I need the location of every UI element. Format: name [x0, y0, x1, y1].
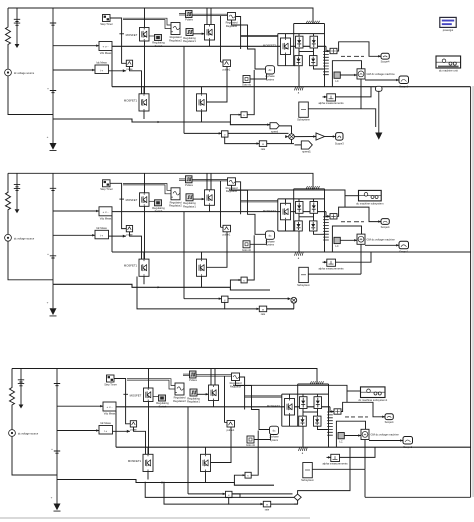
wire D21 mid [298, 213, 300, 221]
svg-text:system: system [266, 243, 274, 247]
svg-text:Step Timer: Step Timer [104, 382, 117, 386]
wire SQ3 out [254, 435, 271, 440]
wire right leg unit2 [324, 189, 326, 252]
wire ctrl b unit2 [123, 185, 171, 194]
svg-text:LC: LC [335, 79, 338, 83]
wire Q24 bottom [143, 276, 145, 284]
svg-text:Scope4: Scope4 [385, 420, 394, 424]
wire top bus unit2 [8, 173, 313, 189]
svg-text:GM dc voltage machine: GM dc voltage machine [367, 72, 396, 76]
wire bridge gate a unit1 [241, 34, 278, 36]
svg-text:Goto dc: Goto dc [242, 248, 252, 252]
voltage measurement block unit3 [103, 402, 116, 411]
ground hatch unit3 [299, 448, 308, 451]
svg-text:Pulses: Pulses [185, 183, 193, 187]
wire bridge gate b unit3 [245, 396, 282, 398]
wire BX1 out [267, 143, 294, 145]
wire bridge gate a unit2 [241, 200, 278, 202]
regulator block W12 [228, 13, 236, 21]
wire Q31 top [148, 369, 150, 389]
wire W22 gate down [220, 181, 222, 227]
wire left rail lower unit2 [8, 241, 53, 279]
wire J1 out unit3 [232, 494, 294, 498]
wire bridge left edge unit3 [281, 394, 283, 426]
wire G21 down [130, 232, 142, 259]
sum block SM1 [330, 48, 337, 53]
wire SS2 out [308, 273, 361, 275]
arrowhead into sum unit1 [285, 135, 288, 138]
converter block RB3 [270, 426, 279, 434]
wire G31 down [134, 427, 146, 454]
svg-text:Subsystem: Subsystem [297, 283, 310, 287]
svg-text:i +: i + [104, 429, 108, 433]
wire into discrete unit2 [229, 190, 345, 207]
svg-text:Regulator2: Regulator2 [169, 204, 182, 208]
wire Q13 top [285, 34, 287, 38]
svg-text:+: + [47, 87, 49, 91]
wire D32 mid [317, 409, 319, 417]
port oval on bus unit1 [376, 86, 383, 91]
wire main bus unit1 [112, 86, 471, 88]
wire into discrete unit3 [233, 385, 347, 402]
junction block J31 [226, 491, 233, 497]
wire Q33 top [289, 394, 291, 398]
diode D21 [296, 202, 304, 214]
wire machine top feed unit2 [332, 226, 361, 252]
wire Q32 top [210, 369, 212, 386]
transfer block BX2 [259, 306, 266, 312]
svg-text:Regulator2: Regulator2 [169, 38, 182, 42]
page edge right [472, 86, 473, 497]
svg-text:Goto dc: Goto dc [246, 443, 256, 447]
diode D1s [50, 119, 57, 151]
wire Q35 top [205, 447, 207, 454]
svg-text:Step Timer: Step Timer [100, 187, 113, 191]
filter element F3 [327, 412, 333, 435]
wire Q15 top [201, 87, 203, 94]
battery E1b [50, 8, 56, 119]
battery E3a [18, 369, 24, 405]
wire 3phase bus unit2 [294, 188, 325, 190]
terminator tick unit1 [119, 33, 124, 35]
svg-text:Step Timer: Step Timer [100, 22, 113, 26]
wire left rail lower unit3 [12, 437, 57, 476]
svg-text:MOSFET: MOSFET [126, 33, 138, 37]
svg-text:Scope3: Scope3 [335, 141, 344, 145]
svg-text:alpha measurements: alpha measurements [318, 267, 344, 271]
wire left rail unit1 [7, 8, 9, 25]
wire bottom return unit1 [53, 119, 270, 125]
wire W32 out b [236, 381, 270, 430]
wire G32 down [211, 427, 232, 463]
resistor R2 [6, 190, 11, 234]
wire W12 in a [192, 13, 228, 15]
wire W32 out [240, 377, 245, 410]
wire B2C out unit3 [294, 503, 298, 505]
wire bridge bottom unit3 [282, 425, 299, 427]
svg-text:Regulator1: Regulator1 [183, 204, 196, 208]
voltage measurement block unit1 [99, 42, 112, 51]
wire source to vmeas unit1 [53, 45, 99, 47]
wire vmeas to sum unit3 [330, 407, 334, 412]
svg-text:dc voltage source: dc voltage source [14, 236, 35, 240]
wire SQ2 out [250, 239, 267, 244]
svg-text:+ v -: + v - [103, 45, 109, 49]
MOSFET Q21 [140, 193, 150, 207]
wire D31 top [302, 394, 304, 397]
wire right rail [470, 87, 472, 498]
svg-text:alpha measurements: alpha measurements [318, 101, 344, 105]
wire sum out unit1 [294, 136, 316, 138]
wire left rail unit2 [7, 173, 9, 190]
wire J12 left [230, 115, 241, 122]
wire 3phase left leg unit2 [293, 189, 295, 231]
wire bridge top rail unit2 [278, 198, 325, 200]
wire D11 mid [298, 48, 300, 56]
wire W12 out [236, 17, 241, 50]
wire bridge midlink unit1 [299, 51, 314, 53]
wire Q15 bottom [201, 111, 203, 122]
MOSFET Q32 [209, 385, 219, 401]
wire Q23 bottom [285, 220, 287, 231]
constant block SQ2 [243, 241, 250, 248]
wire vmeas to sum unit2 [326, 212, 330, 217]
wire pentagon tag to sum unit1 [279, 126, 291, 134]
wire D23 bottom [298, 231, 300, 252]
wire Q24 top [143, 252, 145, 259]
wire main bus unit2 [112, 251, 471, 253]
discrete system block unit3 [361, 387, 386, 398]
wire J11 out [228, 132, 289, 134]
machine block MC3 [361, 429, 369, 439]
wire Q31 to GD3 [153, 396, 159, 398]
svg-text:MOSFET2: MOSFET2 [263, 44, 277, 48]
wire machine right unit2 [365, 244, 399, 246]
wire Q31 bottom [148, 402, 150, 455]
filter element F1 [323, 52, 329, 75]
current measurement block unit2 [95, 230, 109, 239]
wire G12 down [207, 67, 228, 103]
wire W12 gate stub [221, 61, 224, 63]
svg-text:Subsystem: Subsystem [301, 478, 314, 482]
ground hatch unit2 [295, 252, 304, 255]
wire bridge gate b unit1 [241, 36, 278, 38]
battery E2b [50, 173, 56, 284]
wire imeas out unit2 [109, 235, 127, 237]
winding hatch marks unit3 [310, 381, 323, 384]
wire D24 bottom [314, 231, 326, 234]
gate driver block GD3 [159, 395, 166, 401]
powergui block [440, 17, 456, 27]
wire bottom return unit3 [57, 480, 274, 486]
scope SC13 [336, 133, 343, 141]
svg-text:Idc Meas: Idc Meas [96, 61, 107, 65]
transfer block BX1 [259, 141, 266, 147]
wire vmeas long out unit2 [112, 211, 326, 213]
scope SC11 [381, 53, 389, 59]
svg-text:Vdc Meas: Vdc Meas [104, 412, 116, 416]
svg-text:GM dc voltage machine: GM dc voltage machine [371, 433, 400, 437]
wire chain upper unit3 [188, 493, 226, 495]
pulse block K32 [190, 389, 197, 396]
wire bridge bottom unit1 [278, 65, 295, 67]
gate pulse block G31 [130, 421, 136, 427]
svg-text:speed1: speed1 [302, 150, 311, 154]
svg-text:Vdc Meas: Vdc Meas [100, 216, 112, 220]
wire gain out unit1 [325, 136, 336, 138]
wire Q11 bottom [144, 41, 146, 94]
wire Q22 top [206, 173, 208, 190]
MOSFET Q22 [205, 190, 215, 206]
wire DK3 to machine [344, 435, 361, 437]
arrowhead imeas unit1 [123, 69, 126, 72]
wire D32 top [317, 394, 319, 397]
wire diamond up unit3 [298, 447, 350, 494]
diode D33 [299, 416, 307, 426]
wire chain upper unit2 [184, 298, 222, 300]
diode D12 [310, 36, 318, 48]
wire source to vmeas unit2 [53, 210, 99, 212]
battery E1a [14, 8, 20, 44]
subsystem block SS2 [299, 267, 309, 282]
wire J32 right [251, 431, 258, 476]
wire SS3 out [312, 468, 365, 470]
gate pulse block G32 [227, 421, 235, 428]
wire W32 gate down [224, 376, 226, 422]
wire ctrl b unit3 [127, 380, 175, 389]
subsystem block SS3 [303, 463, 313, 478]
converter block RB2 [266, 231, 275, 239]
wire 3phase bus unit1 [294, 23, 325, 25]
wire J11 down [225, 137, 260, 144]
voltage measurement block unit2 [99, 207, 112, 216]
wire K21 b [179, 179, 186, 181]
wire machine right unit3 [369, 440, 403, 442]
wire Q32 top b [214, 369, 216, 386]
wire vmeas down unit1 [111, 51, 113, 87]
wire source to imeas unit3 [57, 430, 99, 432]
current measurement block unit3 [99, 426, 113, 435]
wire D22 mid [313, 213, 315, 221]
wire diamond bottom feed unit3 [297, 501, 299, 505]
svg-text:+: + [47, 252, 49, 256]
svg-text:+ v -: + v - [103, 210, 109, 214]
wire machine down unit3 [364, 440, 366, 470]
svg-text:dc machine subsystem1: dc machine subsystem1 [358, 398, 387, 402]
wire W22 in a [192, 179, 228, 181]
regulator block W11 [171, 23, 180, 35]
ground hatch unit1 [295, 87, 304, 90]
gate pulse block G22 [223, 225, 231, 232]
svg-text:system: system [266, 77, 274, 81]
wire D34 bottom [318, 426, 330, 429]
filter element F2 [323, 217, 329, 240]
svg-text:MOSFET1: MOSFET1 [124, 98, 138, 102]
wire top bus unit1 [8, 8, 313, 24]
wire D13 bottom [298, 66, 300, 87]
svg-text:dc voltage source: dc voltage source [18, 432, 39, 436]
winding hatch marks unit2 [306, 186, 319, 189]
wire W22 out [236, 182, 241, 215]
junction block J12 [241, 112, 247, 118]
subsystem block SS1 [299, 102, 309, 117]
svg-text:Pulses: Pulses [185, 18, 193, 22]
svg-text:+: + [51, 496, 53, 500]
wire chain left ext unit2 [137, 277, 225, 309]
wire K12 out [193, 33, 205, 35]
wire K22 out [193, 198, 205, 200]
wire J21 down [225, 302, 260, 309]
svg-text:Switch: Switch [155, 209, 163, 213]
junction block J32 [245, 472, 251, 478]
constant block SQ3 [247, 436, 254, 443]
scope SC12 [399, 76, 409, 84]
svg-text:rate: rate [261, 147, 266, 151]
wire bridge left edge unit2 [277, 199, 279, 231]
wire D11 top [298, 34, 300, 37]
wire K31 a [183, 373, 190, 375]
wire Q25 top [201, 252, 203, 259]
diode D32 [314, 397, 322, 409]
step source block unit3 [107, 375, 115, 382]
sum block SM3 [334, 409, 341, 414]
pulse generator K31 [190, 371, 197, 378]
wire left rail lower unit1 [8, 76, 53, 115]
junction block J22 [241, 277, 247, 283]
svg-text:system: system [270, 438, 278, 442]
wire bridge top rail unit1 [278, 33, 325, 35]
wire AB1 out [336, 87, 372, 97]
svg-text:Idc Meas: Idc Meas [96, 226, 107, 230]
wire right leg unit3 [328, 384, 330, 447]
gate pulse block G11 [126, 60, 132, 66]
svg-text:dc machine unit: dc machine unit [439, 68, 458, 72]
regulator block W32 [232, 373, 240, 381]
wire Q35 bottom [205, 472, 207, 483]
wire vmeas long out unit3 [116, 406, 330, 408]
terminator arrow unit1 [378, 91, 380, 132]
regulator block W31 [175, 383, 184, 395]
measurement block AB2 [327, 259, 336, 266]
tiny inline labels unit2 [341, 221, 364, 223]
wire Q13 bottom [285, 55, 287, 66]
voltage source V3 circle [9, 430, 16, 437]
wire source to imeas unit2 [53, 234, 95, 236]
constant block SQ1 [243, 76, 250, 83]
MOSFET Q14 [139, 94, 149, 111]
wire bridge midlink unit3 [303, 411, 318, 413]
wire D12 mid [313, 48, 315, 56]
wire Q21 to GD2 [149, 200, 155, 202]
wire AB2 in [323, 261, 327, 263]
wire chain left ext a unit3 [145, 482, 240, 498]
terminator tick unit2 [119, 198, 124, 200]
MOSFET Q34 [143, 454, 153, 471]
wire ctrl a unit3 [127, 379, 175, 386]
wire source to vmeas unit3 [57, 405, 103, 407]
svg-text:dc machine subsystem: dc machine subsystem [356, 202, 384, 206]
wire discrete stub unit3 [347, 390, 361, 392]
wire chain vertical unit3 [187, 407, 189, 494]
wire circle down unit2 [293, 303, 295, 309]
wire machine top feed unit3 [336, 421, 365, 447]
transfer block BX3 [263, 501, 270, 507]
svg-text:MOSFET2: MOSFET2 [263, 209, 277, 213]
wire right leg unit1 [324, 24, 326, 87]
wire Q11 to GD1 [149, 35, 155, 37]
MOSFET Q25 [197, 259, 207, 276]
wire discrete stub unit2 [345, 195, 359, 197]
scope SC21 [381, 219, 389, 225]
sum junction circle unit1 [289, 134, 295, 140]
wire 3phase left leg unit3 [297, 384, 299, 426]
wire SS1 out [308, 108, 361, 110]
wire K31 b [183, 375, 190, 377]
svg-text:w: w [262, 143, 264, 146]
svg-text:i +: i + [100, 234, 104, 238]
wire vmeas to sum unit1 [326, 46, 330, 51]
wire K11 b [179, 14, 186, 16]
wire W12 out b [232, 20, 266, 69]
scope SC32 [403, 437, 413, 445]
svg-text:+: + [47, 300, 49, 304]
gate driver block GD1 [155, 35, 162, 41]
from tag pentagon P12 [301, 141, 312, 149]
switch diamond unit3 [294, 494, 301, 500]
wire bridge bottom unit2 [278, 230, 295, 232]
wire into P12 [295, 144, 302, 146]
wire J31 out [232, 493, 293, 495]
wire Q32 bottom [213, 401, 215, 407]
resistor R1 [6, 25, 11, 69]
step source block unit2 [103, 180, 111, 187]
svg-text:Switch: Switch [159, 404, 167, 408]
sum block SM2 [330, 214, 337, 219]
arrowhead imeas unit2 [123, 235, 126, 238]
wire bridge left edge unit1 [277, 34, 279, 66]
wire machine down unit1 [360, 79, 362, 109]
gate pulse block G21 [126, 226, 132, 232]
wire Q11 top [144, 8, 146, 28]
wire G22 down [207, 232, 228, 267]
junction block J21 [222, 296, 229, 302]
discrete system block unit1 [436, 56, 461, 68]
svg-text:rate: rate [265, 507, 270, 511]
wire 3phase bus unit3 [298, 383, 329, 385]
wire ctrl a unit2 [123, 184, 171, 191]
page edge bottom [0, 517, 310, 518]
svg-text:alpha measurements: alpha measurements [322, 462, 348, 466]
wire J32 left [234, 475, 245, 482]
input arrowheads unit2 [96, 210, 99, 213]
wire AB3 in [327, 456, 331, 458]
measurement block AB3 [331, 454, 340, 461]
wire J22 left [230, 280, 241, 287]
pulse generator K11 [186, 11, 193, 18]
svg-text:Vdc Meas: Vdc Meas [100, 51, 112, 55]
wire vmeas long out unit1 [112, 45, 326, 47]
machine block MC1 [357, 69, 365, 79]
svg-text:w: w [262, 308, 264, 311]
control block DK3 [338, 433, 344, 439]
diode D22 [310, 202, 318, 214]
scope SC31 [385, 414, 393, 420]
svg-text:LC: LC [339, 439, 342, 443]
wire Q22 bottom [209, 205, 211, 211]
winding hatch marks unit1 [306, 21, 319, 24]
MOSFET Q23 [281, 203, 291, 220]
regulator block W22 [228, 178, 236, 186]
